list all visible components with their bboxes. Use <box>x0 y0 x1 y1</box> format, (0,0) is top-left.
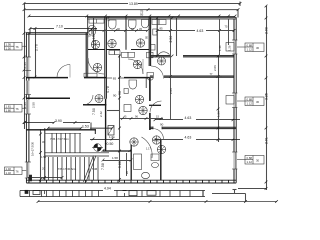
svg-text:4.63: 4.63 <box>185 136 192 140</box>
svg-text:1.53: 1.53 <box>82 125 89 129</box>
svg-text:2.50: 2.50 <box>169 36 173 43</box>
svg-text:85: 85 <box>113 76 117 80</box>
svg-text:7.10: 7.10 <box>56 25 63 29</box>
svg-text:1.34: 1.34 <box>218 45 222 51</box>
svg-text:1.12: 1.12 <box>247 160 253 164</box>
svg-text:1.58: 1.58 <box>112 156 118 160</box>
svg-text:1.12: 1.12 <box>247 102 253 106</box>
svg-text:4.63: 4.63 <box>185 116 192 120</box>
svg-text:16×17.5/30: 16×17.5/30 <box>31 141 35 156</box>
svg-text:5.86: 5.86 <box>118 161 122 168</box>
svg-text:4.63: 4.63 <box>197 29 204 33</box>
svg-text:90: 90 <box>160 123 164 127</box>
svg-text:7.58: 7.58 <box>101 163 105 170</box>
svg-text:1.17: 1.17 <box>146 147 152 151</box>
svg-text:1.12: 1.12 <box>247 48 253 52</box>
svg-text:2.76: 2.76 <box>35 44 39 51</box>
svg-text:76: 76 <box>16 45 20 49</box>
svg-text:30: 30 <box>256 46 260 50</box>
svg-text:1.61: 1.61 <box>109 135 115 139</box>
svg-text:3.90: 3.90 <box>55 119 62 123</box>
svg-text:1.41: 1.41 <box>107 15 111 21</box>
svg-text:2.06: 2.06 <box>169 88 173 94</box>
svg-text:95: 95 <box>145 35 149 39</box>
svg-text:1.80: 1.80 <box>6 109 12 113</box>
svg-text:−0.50: −0.50 <box>105 142 114 146</box>
svg-text:3.25: 3.25 <box>265 93 269 100</box>
svg-text:1.26: 1.26 <box>23 62 27 68</box>
svg-text:4.94: 4.94 <box>104 187 111 191</box>
svg-text:1.26: 1.26 <box>23 102 27 108</box>
svg-text:7.50: 7.50 <box>92 108 96 115</box>
svg-text:85: 85 <box>160 27 164 31</box>
svg-text:1.50: 1.50 <box>6 47 12 51</box>
svg-text:1.26: 1.26 <box>217 111 221 117</box>
svg-text:2.91: 2.91 <box>265 137 269 144</box>
svg-text:TnB: TnB <box>92 167 97 171</box>
svg-text:90: 90 <box>113 94 117 98</box>
svg-text:2.06: 2.06 <box>213 65 217 71</box>
svg-text:1.53: 1.53 <box>41 155 47 159</box>
svg-text:2.50: 2.50 <box>32 102 36 108</box>
svg-text:30: 30 <box>256 159 260 163</box>
svg-text:4.78: 4.78 <box>106 86 110 93</box>
svg-text:7×B.17/17.5cm: 7×B.17/17.5cm <box>50 137 70 141</box>
svg-text:90: 90 <box>118 91 122 95</box>
svg-text:75: 75 <box>88 34 92 38</box>
svg-text:2.15: 2.15 <box>92 35 96 42</box>
svg-text:1.26: 1.26 <box>228 45 232 51</box>
svg-text:2.42: 2.42 <box>99 111 103 117</box>
svg-text:1.32: 1.32 <box>6 171 12 175</box>
svg-text:30: 30 <box>256 100 260 104</box>
svg-text:TrB.17/30.5cm: TrB.17/30.5cm <box>58 167 77 171</box>
svg-text:95: 95 <box>140 13 144 17</box>
svg-text:13.89: 13.89 <box>129 2 138 6</box>
svg-text:2.90: 2.90 <box>265 27 269 34</box>
svg-text:76: 76 <box>16 107 20 111</box>
svg-text:76: 76 <box>16 170 20 174</box>
